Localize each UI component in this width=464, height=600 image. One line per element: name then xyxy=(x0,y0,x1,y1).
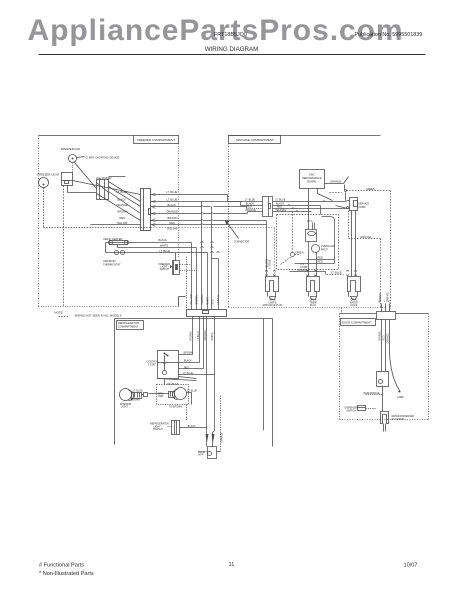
svg-text:COMPARTMENT: COMPARTMENT xyxy=(118,325,139,329)
svg-text:GRN/YEL: GRN/YEL xyxy=(360,235,372,239)
svg-text:ORANGE: ORANGE xyxy=(220,432,223,442)
svg-text:YELLOW: YELLOW xyxy=(117,221,128,225)
svg-text:* Non-Illustrated Parts: * Non-Illustrated Parts xyxy=(39,571,94,577)
svg-text:FRT18B5JQ0: FRT18B5JQ0 xyxy=(214,32,247,38)
svg-text:BROWN: BROWN xyxy=(196,295,199,304)
svg-text:LT. BLUE: LT. BLUE xyxy=(117,190,128,194)
svg-text:FREEZER COMPARTMENT: FREEZER COMPARTMENT xyxy=(137,138,175,142)
svg-text:DEFR. HEATER: DEFR. HEATER xyxy=(104,237,123,241)
svg-text:BROWN: BROWN xyxy=(190,331,193,340)
svg-text:YEL/ORG: YEL/ORG xyxy=(275,209,286,212)
svg-text:LT. BLUE: LT. BLUE xyxy=(331,270,342,274)
svg-text:SWITCH: SWITCH xyxy=(347,409,357,412)
svg-text:LT. BLUE: LT. BLUE xyxy=(133,389,143,392)
svg-text:YELLOW: YELLOW xyxy=(167,227,178,231)
svg-text:Y: Y xyxy=(384,301,386,304)
svg-text:ORANGE: ORANGE xyxy=(117,203,129,207)
svg-text:LT. BLUE: LT. BLUE xyxy=(167,190,178,194)
svg-text:RED: RED xyxy=(318,257,323,260)
svg-text:BROWN: BROWN xyxy=(184,352,193,355)
svg-text:FREEZER LIGHT: FREEZER LIGHT xyxy=(37,172,59,176)
svg-text:LT BLUE: LT BLUE xyxy=(217,295,220,305)
svg-text:ORANGE: ORANGE xyxy=(167,209,179,213)
svg-text:RED: RED xyxy=(170,221,176,225)
svg-text:O: O xyxy=(389,301,391,304)
svg-text:BROWN: BROWN xyxy=(131,399,140,402)
svg-text:WHITE: WHITE xyxy=(160,244,169,248)
svg-text:BLACK: BLACK xyxy=(188,425,196,428)
svg-text:SWITCH: SWITCH xyxy=(153,428,163,431)
svg-text:LT. BLUE: LT. BLUE xyxy=(187,390,197,393)
svg-text:ORANGE: ORANGE xyxy=(330,179,342,183)
svg-text:REFRIGERATOR: REFRIGERATOR xyxy=(118,321,139,325)
svg-text:WHITE: WHITE xyxy=(206,296,209,304)
svg-text:LT. BLUE: LT. BLUE xyxy=(275,199,286,202)
svg-text:WATER: WATER xyxy=(350,301,358,304)
svg-text:TIMER: TIMER xyxy=(309,302,316,304)
svg-text:11: 11 xyxy=(229,562,235,568)
svg-text:CPL-3: CPL-3 xyxy=(310,300,317,302)
svg-text:GREEN: GREEN xyxy=(380,293,382,302)
svg-text:TO BROWN: TO BROWN xyxy=(169,405,182,408)
svg-text:BLACK: BLACK xyxy=(184,360,192,363)
svg-text:RED: RED xyxy=(212,299,215,304)
svg-text:LIGHT: LIGHT xyxy=(121,406,129,409)
svg-text:BOARD: BOARD xyxy=(307,181,316,184)
svg-text:ACTUATOR: ACTUATOR xyxy=(391,418,404,421)
svg-text:LT. BLUE: LT. BLUE xyxy=(183,372,193,375)
svg-text:PLUG: PLUG xyxy=(310,305,316,307)
svg-text:BLACK: BLACK xyxy=(168,203,177,207)
svg-text:ORANGE: ORANGE xyxy=(386,333,389,344)
svg-text:SWITCH: SWITCH xyxy=(160,268,170,271)
svg-text:C/ MTR SHORTING DEVICE: C/ MTR SHORTING DEVICE xyxy=(86,156,120,160)
svg-text:VALVE: VALVE xyxy=(350,304,358,307)
svg-text:LT BLUE: LT BLUE xyxy=(270,259,272,269)
svg-text:RED: RED xyxy=(184,366,189,369)
svg-text:YELLOW: YELLOW xyxy=(190,294,193,305)
svg-text:THERMOSTAT: THERMOSTAT xyxy=(103,262,121,266)
svg-text:LT BLUE: LT BLUE xyxy=(197,331,200,341)
svg-text:LT. BLUE: LT. BLUE xyxy=(167,197,178,201)
svg-text:T'STAT: T'STAT xyxy=(148,363,156,366)
svg-text:LT. BLUE: LT. BLUE xyxy=(245,199,256,202)
svg-text:LT. BLUE: LT. BLUE xyxy=(159,249,170,253)
svg-text:DOOR COMPARTMENT: DOOR COMPARTMENT xyxy=(342,320,372,324)
svg-text:ORANGE: ORANGE xyxy=(245,209,256,212)
svg-text:WHITE: WHITE xyxy=(211,332,214,340)
svg-text:ORG: ORG xyxy=(158,395,164,398)
svg-text:GREEN: GREEN xyxy=(366,187,375,191)
svg-text:APPLIANCE PLUG: APPLIANCE PLUG xyxy=(263,304,283,307)
svg-text:WIRING DIAGRAM: WIRING DIAGRAM xyxy=(205,46,259,53)
svg-text:10/07: 10/07 xyxy=(404,563,418,569)
svg-text:LAMP &: LAMP & xyxy=(268,301,277,304)
svg-text:ORANGE: ORANGE xyxy=(204,330,207,341)
svg-text:HTR: HTR xyxy=(198,454,203,457)
svg-text:CPL-2: CPL-2 xyxy=(269,300,276,302)
svg-text:# Functional Parts: # Functional Parts xyxy=(39,563,84,569)
svg-text:RED: RED xyxy=(318,261,323,264)
svg-text:NOTE:: NOTE: xyxy=(54,311,63,315)
svg-text:CNL BULB: CNL BULB xyxy=(167,383,179,386)
svg-text:ORANGE: ORANGE xyxy=(201,294,204,305)
svg-text:RED: RED xyxy=(120,216,126,220)
svg-text:YELLOW: YELLOW xyxy=(266,258,268,268)
svg-text:FREEZER FAN: FREEZER FAN xyxy=(61,147,80,151)
svg-text:PTC: PTC xyxy=(308,220,313,223)
svg-text:BROWN: BROWN xyxy=(378,331,381,340)
svg-text:CORD: CORD xyxy=(358,206,366,209)
svg-text:BLACK: BLACK xyxy=(159,238,168,242)
svg-text:PROT.: PROT. xyxy=(321,248,329,251)
svg-text:RED/ORANGE: RED/ORANGE xyxy=(364,392,380,395)
svg-text:CPL-1: CPL-1 xyxy=(350,300,357,302)
svg-text:WIRING NOT SEEN IN ALL MODELS: WIRING NOT SEEN IN ALL MODELS xyxy=(75,314,122,318)
svg-text:RED: RED xyxy=(382,335,385,340)
svg-text:BROWN: BROWN xyxy=(118,209,128,213)
svg-text:Publication No. 5995501839: Publication No. 5995501839 xyxy=(355,32,423,38)
svg-text:BROWN: BROWN xyxy=(168,216,178,220)
svg-text:BLACK: BLACK xyxy=(118,197,127,201)
svg-text:CONNECTOR: CONNECTOR xyxy=(234,240,250,243)
svg-text:MACHINE COMPARTMENT: MACHINE COMPARTMENT xyxy=(236,138,274,142)
svg-text:GREEN: GREEN xyxy=(295,252,304,255)
svg-text:ICE MAKER: ICE MAKER xyxy=(96,176,111,180)
svg-text:LAMP: LAMP xyxy=(397,396,404,399)
